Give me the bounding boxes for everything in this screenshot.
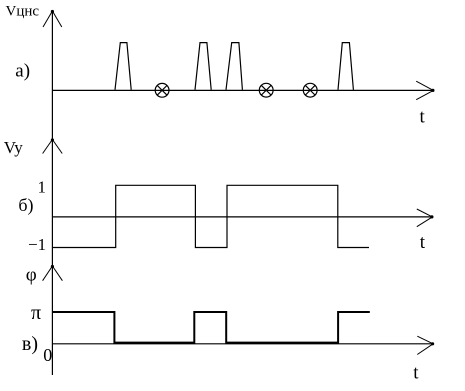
mixer M1 — [155, 83, 169, 97]
axis a arrowhead (up caret) — [43, 11, 62, 27]
svg-text:1: 1 — [38, 178, 47, 197]
waveform Vy square wave — [52, 185, 369, 247]
mixer M3 — [303, 83, 317, 97]
axis c arrowhead (up caret) — [43, 266, 63, 281]
svg-text:−1: −1 — [28, 235, 46, 254]
axis b arrowhead (up caret) — [43, 140, 63, 154]
svg-text:t: t — [420, 107, 426, 128]
pulse P1 — [115, 43, 131, 90]
axis b arrowhead (right) — [417, 209, 433, 227]
mixer M2 — [259, 83, 273, 97]
axis a arrowhead (right) — [416, 81, 433, 100]
svg-text:0: 0 — [43, 345, 52, 365]
svg-text:Vy: Vy — [4, 138, 23, 157]
waveform phi square wave — [52, 312, 369, 343]
svg-text:б): б) — [18, 195, 33, 216]
axis c horizontal — [52, 343, 433, 345]
axis a horizontal — [52, 89, 433, 91]
svg-text:φ: φ — [26, 265, 37, 286]
svg-text:Vцнс: Vцнс — [6, 3, 40, 19]
svg-text:в): в) — [22, 333, 38, 355]
pulse P3 — [226, 43, 242, 90]
svg-text:t: t — [413, 362, 419, 383]
axis b horizontal — [52, 216, 432, 218]
axis c arrowhead (right) — [417, 336, 433, 354]
svg-text:а): а) — [15, 61, 30, 82]
pulse P4 — [338, 43, 353, 90]
pulse P2 — [195, 43, 211, 90]
shared vertical axis line — [51, 11, 53, 375]
svg-text:π: π — [31, 302, 41, 324]
svg-text:t: t — [420, 232, 426, 253]
